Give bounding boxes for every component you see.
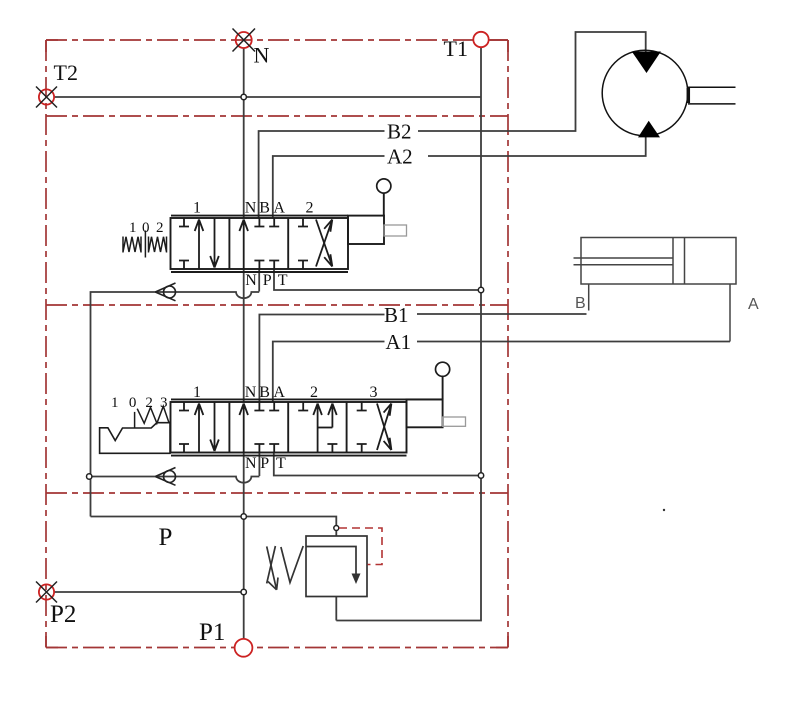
svg-text:P1: P1 [199, 619, 225, 646]
wire lower P port [258, 453, 260, 477]
center blocked ports [254, 402, 264, 411]
sec3 blocked ports [357, 402, 367, 411]
svg-text:3: 3 [160, 395, 168, 411]
port P2 [36, 582, 76, 629]
CHECK VALVE CV1 [155, 283, 175, 301]
sec1 blocked ports [179, 402, 189, 411]
svg-text:N: N [245, 200, 257, 217]
center N passage arrow [239, 220, 248, 270]
svg-text:T: T [278, 272, 288, 289]
svg-text:1: 1 [111, 395, 119, 411]
svg-text:2: 2 [310, 384, 318, 401]
svg-text:B: B [259, 384, 270, 401]
wire P2 [54, 591, 244, 593]
svg-text:1: 1 [129, 220, 137, 236]
wire A1 [273, 342, 385, 403]
svg-text:3: 3 [370, 384, 378, 401]
cylinder port B stub [588, 284, 590, 311]
border corner stubs (solid) [46, 40, 508, 648]
sec3 crossed arrows [377, 404, 391, 451]
upper valve internals [179, 218, 332, 269]
lower valve detent and spring [100, 406, 170, 453]
wire A2 [273, 156, 385, 218]
CHECK VALVE CV2 [155, 468, 175, 486]
sec1 arrow down [210, 218, 219, 268]
svg-text:2: 2 [306, 200, 314, 217]
svg-text:N: N [254, 43, 270, 68]
svg-text:1: 1 [193, 384, 201, 401]
manifold boundary (red dash-dot box) [46, 40, 508, 648]
wire lower T to T1 vertical [274, 453, 481, 476]
wire relief outlet bottom [335, 597, 337, 621]
wire P gallery [91, 517, 337, 537]
relief spring [267, 546, 304, 583]
svg-text:A: A [748, 296, 759, 313]
UPPER VALVE U1 [171, 216, 349, 272]
LOWER VALVE U2 [171, 399, 443, 455]
lower spring position labels 1 0 2 3 [111, 395, 168, 411]
body [171, 218, 349, 269]
sec2 blocked ports [298, 218, 308, 227]
relief pilot line (red dashed) [339, 528, 382, 565]
upper valve lever operator [348, 179, 407, 244]
svg-text:B: B [575, 295, 586, 312]
center blocked ports [254, 218, 264, 227]
svg-text:T: T [276, 455, 286, 472]
adjustment arrow [267, 546, 278, 589]
wire upper T to T1 vertical [274, 269, 481, 290]
wire B1 [259, 315, 384, 403]
wire T2 to T1 vertical [54, 96, 481, 98]
lower valve lever operator [407, 362, 466, 427]
CYLINDER [574, 238, 737, 342]
wire upper check line with hop over N [91, 292, 260, 517]
svg-text:P: P [263, 272, 272, 289]
center N passage arrow [239, 404, 248, 453]
svg-text:P: P [260, 455, 269, 472]
MOTOR M1 [602, 50, 735, 137]
svg-text:B: B [259, 200, 270, 217]
svg-text:A2: A2 [387, 145, 413, 169]
svg-text:P: P [159, 524, 173, 551]
upper valve centering springs [123, 231, 167, 258]
svg-text:N: N [245, 455, 257, 472]
sec2 crossed arrows [316, 220, 332, 267]
sec2 arrows [313, 404, 322, 453]
wire upper P port [258, 269, 260, 292]
svg-text:N: N [245, 272, 257, 289]
lower valve position labels [193, 384, 378, 472]
upper valve position labels [193, 200, 314, 290]
wire B2 [259, 131, 385, 218]
svg-text:T2: T2 [54, 60, 78, 85]
port N [233, 29, 270, 68]
wire lower check line with hop over N [89, 477, 259, 483]
port T2 [36, 60, 78, 108]
sec2 blocked ports [298, 402, 308, 411]
junction nodes [87, 94, 484, 594]
svg-text:A: A [273, 384, 285, 401]
svg-text:P2: P2 [50, 601, 76, 628]
sec1 arrow up [195, 404, 204, 453]
wire T1 vertical down and to relief outlet [336, 48, 481, 621]
sec1 arrow up [195, 220, 204, 270]
svg-text:0: 0 [129, 395, 137, 411]
svg-text:B1: B1 [384, 303, 409, 327]
wire N down to P1 [243, 453, 245, 640]
wire N between valves [243, 269, 245, 402]
RELIEF VALVE RV1 [267, 536, 367, 597]
wire N port down to upper valve [243, 48, 245, 218]
port P1 [199, 619, 252, 657]
port T1 [444, 32, 489, 61]
lower valve internals [179, 402, 391, 453]
svg-text:1: 1 [193, 200, 201, 217]
svg-text:A: A [273, 200, 285, 217]
svg-text:B2: B2 [387, 120, 412, 144]
svg-text:0: 0 [142, 220, 150, 236]
svg-text:2: 2 [156, 220, 164, 236]
svg-text:N: N [245, 384, 257, 401]
svg-text:A1: A1 [386, 330, 412, 354]
cylinder port A stub [729, 284, 731, 342]
stray dot [663, 509, 665, 511]
sec1 arrow down [210, 402, 219, 451]
svg-text:T1: T1 [444, 36, 468, 61]
rails [171, 215, 348, 217]
upper spring position labels 1 0 2 [129, 220, 164, 236]
sec1 blocked ports [179, 218, 189, 227]
svg-text:2: 2 [145, 395, 153, 411]
